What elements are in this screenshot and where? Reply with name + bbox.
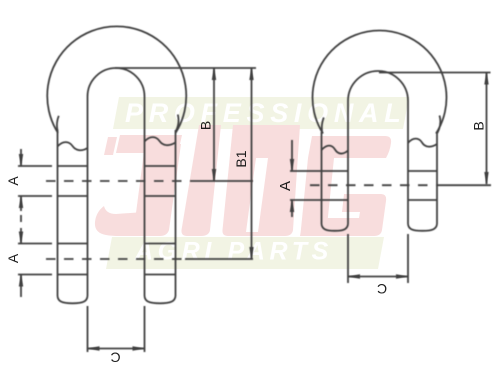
svg-text:B: B	[471, 121, 487, 130]
svg-text:A: A	[277, 181, 294, 191]
svg-text:PROFESSIONAL: PROFESSIONAL	[125, 98, 406, 128]
svg-text:B1: B1	[233, 150, 249, 167]
svg-text:C: C	[110, 350, 120, 366]
svg-text:B: B	[198, 121, 214, 130]
svg-text:A: A	[5, 253, 21, 263]
svg-text:A: A	[5, 176, 21, 186]
svg-text:AGRI PARTS: AGRI PARTS	[134, 238, 333, 266]
svg-text:C: C	[377, 281, 387, 297]
